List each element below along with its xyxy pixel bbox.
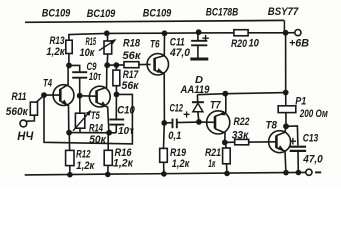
- label underline: [25, 20, 284, 22]
- wire R18 to T6 base: [139, 63, 151, 65]
- svg-text:200 Ом: 200 Ом: [299, 108, 328, 120]
- transistor T4 base lead: [44, 94, 60, 96]
- wire node to R22: [225, 141, 235, 143]
- wire R16 to rail: [107, 165, 109, 174]
- wire C13 to rail: [297, 152, 299, 173]
- capacitor C13: [290, 146, 306, 148]
- resistor R16: [104, 150, 112, 165]
- transistor T5: [89, 86, 110, 107]
- transistor T6 emitter: [155, 70, 165, 123]
- svg-text:0,1: 0,1: [168, 130, 181, 142]
- wire node to C9: [69, 65, 80, 71]
- wire T6 emitter to C12: [164, 122, 171, 124]
- svg-text:C10: C10: [117, 104, 135, 116]
- node T5 emitter junction: [106, 130, 112, 136]
- wire R12 to rail: [69, 166, 71, 175]
- svg-text:НЧ: НЧ: [17, 129, 33, 143]
- resistor R15 arrow: [99, 40, 115, 51]
- transistor T5 collector: [97, 65, 107, 91]
- svg-text:+6В: +6В: [289, 38, 309, 50]
- wire feedback: [44, 94, 132, 143]
- node T4 emitter junction: [66, 130, 72, 136]
- capacitor C11 bottom bar: [190, 57, 208, 60]
- terminal НЧ input: [20, 120, 27, 127]
- node T8 collector junction: [283, 123, 289, 129]
- wire R13 to node: [68, 54, 70, 66]
- node T6 collector: [162, 30, 168, 36]
- svg-text:10т: 10т: [118, 126, 134, 137]
- node T5 base: [77, 93, 83, 99]
- transistor T6 collector: [155, 33, 165, 58]
- node T8 emitter ground: [283, 170, 289, 176]
- transistor T6: [147, 54, 168, 75]
- wire rail corner to R13: [68, 34, 70, 40]
- svg-text:R12: R12: [76, 149, 91, 161]
- node R17-C10 junction: [114, 92, 120, 98]
- node R16 ground: [105, 172, 111, 178]
- svg-text:BC178B: BC178B: [206, 6, 239, 18]
- node C11 top: [196, 29, 202, 35]
- wire diode top lead: [196, 95, 198, 102]
- wire rail to R15: [106, 33, 108, 41]
- resistor P1: [278, 106, 296, 113]
- svg-text:R20: R20: [231, 38, 247, 50]
- resistor R21: [223, 148, 231, 164]
- wire R14 bottom to emitter bus: [79, 128, 81, 133]
- resistor R13: [66, 40, 72, 53]
- node R15 top: [104, 30, 110, 36]
- wire T6 emitter to R19: [163, 123, 166, 148]
- transistor T4: [53, 85, 74, 106]
- transistor T7 base lead: [199, 121, 215, 123]
- svg-text:10: 10: [248, 38, 259, 50]
- svg-text:56к: 56к: [123, 50, 141, 62]
- wire R14 top to T5 base: [79, 96, 81, 113]
- wire R19 to rail: [163, 162, 165, 174]
- wire T4 emitter to R12: [68, 133, 70, 151]
- transistor T7 emitter arrow: [219, 111, 225, 116]
- wire top rail: [68, 33, 295, 35]
- svg-text:10т: 10т: [89, 71, 102, 83]
- svg-text:BC109: BC109: [42, 7, 71, 19]
- diode D: [193, 103, 203, 111]
- svg-text:T7: T7: [210, 100, 221, 112]
- node T7 emitter junction: [222, 91, 228, 97]
- node T4 base junction: [41, 92, 47, 98]
- svg-text:C13: C13: [303, 132, 319, 144]
- wire supply vertical: [285, 33, 287, 93]
- transistor T8 emitter arrow: [278, 145, 284, 150]
- wire underline to +6V rail: [283, 20, 285, 33]
- wire C9 to T5 base node: [79, 79, 81, 96]
- transistor T4 emitter: [60, 101, 69, 133]
- svg-text:BC109: BC109: [87, 8, 116, 20]
- wire R17 top lead: [115, 65, 117, 70]
- svg-text:+: +: [183, 107, 190, 121]
- resistor R11: [30, 102, 37, 115]
- wire bottom rail: [25, 172, 306, 175]
- svg-text:50к: 50к: [89, 134, 106, 146]
- node R17 top: [114, 62, 120, 68]
- transistor T8: [269, 131, 291, 153]
- transistor T7 collector: [215, 129, 225, 143]
- svg-text:47,0: 47,0: [302, 153, 322, 165]
- node T5 collector: [104, 62, 110, 68]
- svg-text:+: +: [202, 30, 210, 45]
- svg-text:BSY77: BSY77: [268, 6, 299, 18]
- transistor T5 emitter arrow: [100, 101, 106, 106]
- wire T5 emitter to R16: [107, 133, 109, 151]
- transistor T5 emitter: [97, 102, 109, 132]
- node T7 collector junction: [222, 140, 228, 146]
- wire C10 top lead: [115, 94, 117, 118]
- svg-text:АА119: АА119: [180, 84, 210, 96]
- node C13 ground: [296, 170, 302, 176]
- wire R21 to rail: [226, 164, 228, 174]
- wire node to R21: [225, 142, 226, 148]
- node supply junction: [283, 30, 289, 36]
- resistor R14 arrow: [73, 111, 90, 131]
- wire input to R11: [26, 115, 34, 121]
- wire R22 to T8 base: [249, 141, 277, 143]
- svg-text:T6: T6: [150, 38, 160, 50]
- resistor R17: [113, 70, 120, 86]
- svg-text:560к: 560к: [6, 106, 28, 118]
- svg-text:C12: C12: [169, 102, 183, 114]
- terminal minus: [306, 169, 312, 175]
- wire emitter bus: [69, 132, 116, 134]
- transistor T4 collector: [60, 65, 68, 89]
- wire T5 collector node to R18: [107, 64, 124, 66]
- wire R11 to T4 base node: [36, 95, 44, 102]
- svg-text:T8: T8: [266, 120, 278, 132]
- node diode T7 base: [196, 119, 202, 125]
- wire P1 top lead: [285, 93, 287, 106]
- wire C12 to diode node: [177, 121, 199, 124]
- capacitor C11 bottom lead: [197, 46, 199, 58]
- resistor R14: [75, 113, 84, 128]
- wire R17 to C10 node: [115, 86, 117, 95]
- capacitor C9: [72, 71, 87, 73]
- svg-text:R18: R18: [123, 38, 140, 50]
- node R21 ground: [224, 171, 230, 177]
- transistor T6 emitter arrow: [157, 68, 164, 73]
- resistor R15: [104, 41, 112, 54]
- svg-text:R19: R19: [170, 147, 186, 159]
- transistor T7 emitter: [215, 94, 226, 117]
- wire P1 bottom lead: [285, 113, 287, 127]
- svg-text:R11: R11: [12, 91, 27, 103]
- resistor R22: [235, 139, 249, 144]
- node R12 ground: [67, 172, 73, 178]
- svg-text:1к: 1к: [208, 158, 215, 170]
- transistor T4 emitter arrow: [61, 100, 67, 106]
- wire T8 collector to C13: [286, 126, 298, 145]
- wire V+ distribution: [197, 93, 285, 95]
- wire R15 to T5 collector node: [106, 54, 109, 65]
- node T6 emitter junction: [161, 120, 167, 126]
- svg-text:1,2к: 1,2к: [172, 158, 190, 170]
- svg-text:1,2к: 1,2к: [113, 158, 134, 170]
- svg-text:BC109: BC109: [143, 7, 172, 19]
- transistor T8 collector: [276, 126, 286, 135]
- node R19 ground: [161, 171, 167, 177]
- node P1 top junction: [283, 90, 289, 96]
- transistor T5 base lead: [80, 95, 97, 97]
- resistor R18: [124, 62, 139, 68]
- svg-text:10к: 10к: [80, 47, 96, 59]
- resistor R19: [160, 148, 168, 162]
- node T4 collector: [66, 63, 72, 69]
- svg-text:R14: R14: [89, 123, 103, 135]
- label minus: [315, 171, 321, 173]
- wire diode to node: [197, 112, 200, 122]
- svg-text:1,2к: 1,2к: [76, 160, 94, 172]
- capacitor C10: [109, 119, 124, 121]
- svg-text:T4: T4: [43, 77, 52, 89]
- wire C11 top lead: [197, 32, 199, 40]
- svg-text:R22: R22: [234, 116, 250, 128]
- capacitor C12: [172, 119, 174, 129]
- transistor T7: [207, 111, 230, 134]
- wire C10 bottom lead: [115, 126, 117, 133]
- transistor T8 emitter: [276, 148, 286, 173]
- svg-text:47,0: 47,0: [169, 47, 190, 59]
- svg-text:56к: 56к: [122, 80, 140, 92]
- terminal +6В: [295, 29, 301, 35]
- resistor R12: [66, 150, 74, 165]
- svg-text:1,2к: 1,2к: [46, 46, 65, 58]
- svg-text:P1: P1: [295, 95, 306, 107]
- svg-text:R15: R15: [86, 36, 97, 48]
- svg-text:T5: T5: [91, 110, 101, 122]
- diode D cathode bar: [192, 101, 204, 103]
- resistor R20: [234, 30, 248, 36]
- capacitor C11: [191, 40, 207, 42]
